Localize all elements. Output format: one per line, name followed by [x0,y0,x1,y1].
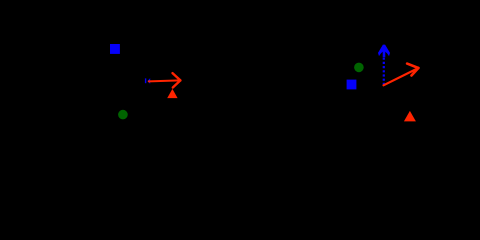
left red triangle marker [167,89,177,98]
right landmark circle (green) [354,63,364,73]
right landmark square (blue) [347,80,357,90]
left red pose arrow [149,73,181,87]
right blue heading arrow, dotted shaft [383,58,385,86]
left landmark square (blue) [110,44,120,54]
left blue arrowhead (points left) [147,78,150,84]
right red triangle marker [404,111,416,122]
right blue arrow solid neck [383,46,386,58]
right blue arrowhead (points up) [378,45,390,57]
right red pose arrow [384,64,419,86]
left landmark circle (green) [118,110,128,120]
left blue heading dash [145,78,146,83]
